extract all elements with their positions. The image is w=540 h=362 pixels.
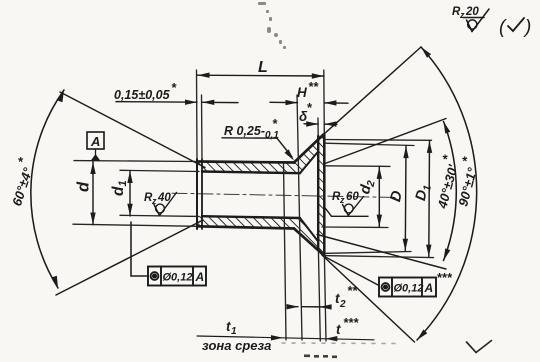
ext right face up to L dim	[323, 70, 326, 135]
svg-text:**: **	[347, 283, 358, 298]
svg-text:0,1: 0,1	[265, 130, 279, 141]
tolerance frame right	[379, 278, 436, 297]
ext D1 top	[325, 139, 432, 142]
dimension t1 / t*** bottom line	[197, 336, 374, 340]
svg-text:Ø0,12: Ø0,12	[394, 283, 424, 295]
dimension 0,15±0,05	[116, 102, 238, 103]
ext delta left	[317, 118, 319, 137]
wire bottom wall hatch	[197, 216, 300, 228]
svg-text:d: d	[110, 186, 127, 196]
angle 40 deg leader top	[325, 119, 446, 164]
svg-text:40: 40	[157, 192, 171, 204]
dimension d1	[129, 171, 131, 217]
ext D bottom	[323, 252, 412, 254]
svg-text:0,15±0,05: 0,15±0,05	[114, 88, 171, 102]
angle 60 deg leader bottom	[56, 220, 203, 295]
roughness Rz60	[324, 197, 368, 217]
angle 60 deg arc	[31, 90, 64, 288]
ext H down through part	[297, 95, 302, 340]
ext d1 top	[120, 170, 199, 171]
ext face-1 down	[318, 250, 320, 341]
ext left face up to L dim	[196, 70, 199, 159]
bottom V mark	[467, 341, 492, 353]
ext left inner step up	[201, 95, 204, 159]
flare inner cone top	[300, 152, 318, 174]
tolerance frame left	[148, 267, 206, 286]
faint dotted row	[282, 342, 396, 345]
face vertical 1	[317, 136, 319, 250]
svg-text:z: z	[459, 10, 465, 20]
angle 40 deg leader bottom	[317, 235, 446, 270]
dimension d	[92, 162, 94, 225]
dimension D1	[428, 140, 431, 257]
leader right frame	[323, 256, 380, 286]
leader left frame	[131, 222, 148, 276]
axis centerline	[172, 193, 398, 197]
svg-text:*: *	[459, 155, 475, 165]
svg-text:***: ***	[437, 270, 453, 285]
tube inner top	[202, 172, 300, 174]
svg-text:1: 1	[231, 326, 237, 337]
dimension D	[404, 146, 407, 252]
svg-text:1: 1	[421, 184, 434, 192]
face vertical 2	[323, 135, 326, 257]
ext d2 top	[325, 165, 391, 168]
angle 40 deg arc	[444, 122, 457, 261]
svg-text:d: d	[75, 181, 93, 192]
svg-text:A: A	[195, 270, 205, 284]
svg-text:зона среза: зона среза	[202, 338, 271, 353]
svg-text:z: z	[339, 195, 345, 205]
ext D top	[325, 143, 415, 145]
svg-text:z: z	[151, 196, 157, 206]
dimension delta*	[304, 123, 337, 126]
svg-text:2: 2	[339, 299, 346, 310]
angle 90 deg arc	[417, 47, 477, 340]
svg-text:1: 1	[117, 180, 129, 186]
left end face	[196, 159, 198, 229]
wire top wall hatch	[197, 162, 300, 174]
svg-text:): )	[523, 17, 531, 38]
svg-text:20: 20	[465, 6, 479, 18]
ext face-2 down	[324, 256, 326, 341]
svg-text:R 0,25-: R 0,25-	[224, 124, 265, 138]
left inner step line	[201, 159, 203, 229]
wire face band hatch	[318, 137, 324, 254]
dimension d2	[378, 166, 380, 227]
dimension L	[197, 74, 324, 77]
tube inner bottom	[202, 216, 300, 218]
dimension H**	[270, 101, 348, 104]
svg-text:A: A	[90, 134, 100, 149]
svg-text:(: (	[499, 17, 507, 38]
svg-text:*: *	[171, 80, 177, 95]
roughness Rz20 top right	[463, 9, 489, 32]
flare outer cone bottom	[294, 229, 324, 256]
tube outer bottom	[197, 226, 294, 228]
svg-text:*: *	[272, 116, 278, 131]
ext D1 bottom	[323, 256, 434, 258]
svg-text:***: ***	[343, 315, 359, 330]
ext d1 bottom	[120, 215, 199, 216]
wire top flare hatch	[294, 135, 324, 173]
svg-text:t: t	[336, 322, 341, 337]
flare outer cone top	[294, 135, 324, 163]
angle 90 deg leader bottom	[322, 255, 415, 342]
flare inner cone bottom	[300, 218, 318, 242]
svg-text:A: A	[424, 281, 434, 295]
ext d2 bottom	[322, 226, 388, 229]
svg-text:*: *	[307, 100, 313, 115]
ext d bottom left	[73, 224, 197, 226]
angle 90 deg leader top	[324, 47, 422, 135]
dimension t2**	[288, 306, 331, 308]
svg-text:Ø0,12: Ø0,12	[163, 272, 193, 284]
wire bottom flare hatch	[294, 218, 324, 255]
svg-text:*: *	[14, 155, 30, 165]
scan specks	[258, 2, 286, 49]
ext d top left	[74, 160, 197, 163]
ext shear-zone boundary	[284, 163, 287, 340]
svg-text:**: **	[308, 79, 319, 94]
roughness Rz40	[154, 193, 177, 216]
svg-text:D: D	[387, 189, 406, 203]
leader R 0,25-0,1*	[222, 138, 292, 157]
svg-text:H: H	[297, 85, 307, 100]
angle 60 deg leader top	[60, 92, 205, 168]
part outline: tube outer top	[197, 162, 294, 163]
svg-text:L: L	[258, 59, 268, 76]
datum A box	[87, 132, 104, 149]
extension lines, thin	[73, 70, 434, 341]
